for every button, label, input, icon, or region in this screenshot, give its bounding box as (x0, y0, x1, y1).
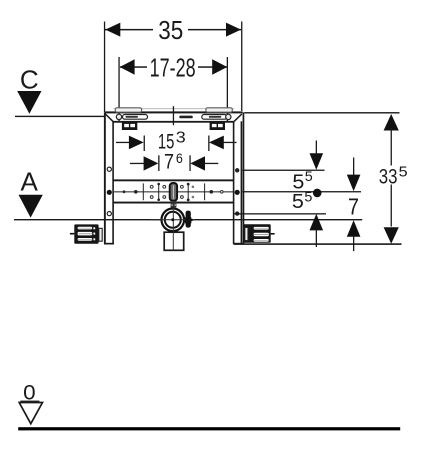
dimension 33-5 line (384, 114, 399, 244)
reference line 2 right (242, 191, 361, 192)
svg-text:7: 7 (348, 194, 359, 220)
crossbar hole c (163, 185, 166, 188)
dimension 17-28 extension line right (227, 57, 228, 121)
dimension 5-5 node dot (313, 189, 322, 198)
svg-text:5: 5 (304, 188, 312, 204)
bolt bracket left (122, 122, 137, 130)
floor line (18, 427, 400, 430)
drain flange outer (162, 209, 185, 232)
crossbar tick 3 (187, 183, 190, 202)
top rail slot left circle (116, 114, 121, 119)
dimension 5-5 upper arrow (310, 141, 324, 170)
foot right (243, 224, 274, 242)
crossbar hole h (192, 196, 195, 199)
crossbar tick 2 (157, 183, 160, 201)
drain centre line horizontal (150, 219, 195, 220)
dimension 7-6 label (164, 150, 183, 173)
top rail slot right circle (226, 114, 231, 119)
top rail centre bar (179, 116, 193, 119)
frame top rail band (105, 111, 243, 122)
crossbar hole d (163, 196, 166, 199)
dimension 7-6 (130, 155, 218, 171)
drain centre line vertical (173, 208, 174, 251)
left rail hole top (107, 167, 111, 171)
svg-text:C: C (20, 64, 39, 94)
level marker C triangle (17, 91, 41, 114)
dimension 15-3 label (158, 130, 186, 154)
top rail slot right inner bar (209, 116, 222, 118)
top rail slot right oblong (202, 115, 227, 120)
floor level 0 triangle (19, 403, 42, 424)
frame fixing tab left (115, 108, 141, 112)
bolt bracket right (210, 122, 225, 130)
svg-text:33: 33 (379, 165, 398, 188)
dimension 5-5 lower arrow (310, 214, 324, 247)
floor level 0 underline (20, 401, 39, 402)
crossbar tick 4 (204, 183, 205, 200)
left rail hole middle (107, 190, 112, 195)
top rail slot left oblong (123, 115, 148, 120)
svg-text:6: 6 (176, 150, 183, 166)
drain centre dot (171, 218, 174, 221)
crossbar mark right (210, 190, 214, 194)
right rail hole bottom (235, 211, 239, 215)
dimension 35 extension line right (241, 22, 242, 112)
drain pipe (164, 232, 184, 250)
svg-text:17-28: 17-28 (150, 52, 196, 82)
svg-text:35: 35 (158, 15, 183, 45)
crossbar hole g (192, 186, 195, 189)
level line C (15, 116, 105, 117)
frame top face back edge (114, 108, 235, 109)
crossbar mark left (134, 190, 138, 194)
svg-text:3: 3 (176, 130, 186, 147)
dimension 5-5 upper label (292, 168, 313, 194)
drain slot (170, 183, 177, 201)
crossbar hole a (150, 185, 153, 188)
svg-text:5: 5 (292, 191, 304, 213)
reference line 1 right (242, 170, 324, 171)
dimension 35 extension line left (104, 22, 105, 113)
top reference line right (244, 112, 399, 113)
svg-text:7: 7 (164, 150, 174, 173)
crossbar hole f (181, 196, 184, 199)
crossbar hole e (181, 185, 184, 188)
dimension 7 lower arrow (347, 220, 361, 251)
foot left (70, 224, 102, 243)
crossbar centre line (114, 191, 233, 192)
frame centre line (173, 106, 174, 125)
frame left rail (104, 112, 114, 244)
dimension 35 line (105, 23, 241, 37)
frame fixing tab right (206, 108, 232, 112)
crossbar hole b (150, 196, 153, 199)
dimension 7 upper arrow (347, 158, 361, 192)
reference line 3 right (233, 213, 326, 214)
dimension 15-3 (116, 136, 237, 152)
dimension 5-5 lower label (292, 188, 313, 213)
top rail slot left inner bar (126, 116, 139, 118)
level marker A triangle (19, 195, 43, 218)
bottom reference line right (234, 243, 402, 245)
right rail hole middle (235, 190, 240, 195)
crossbar (113, 179, 234, 203)
right rail hole top (235, 168, 239, 172)
svg-text:A: A (21, 167, 39, 197)
drain clamp (185, 211, 193, 228)
dimension 17-28 extension line left (118, 57, 119, 121)
left rail hole bottom (107, 212, 111, 216)
svg-text:5: 5 (305, 168, 313, 184)
dimension 17-28 line (120, 59, 228, 74)
crossbar tick 1 (143, 183, 144, 200)
level line A (14, 219, 362, 220)
drain slot connector (171, 201, 177, 208)
frame right rail (233, 112, 245, 244)
dimension 33-5 label (379, 164, 408, 188)
svg-text:5: 5 (399, 164, 408, 180)
drain flange inner (165, 212, 181, 228)
